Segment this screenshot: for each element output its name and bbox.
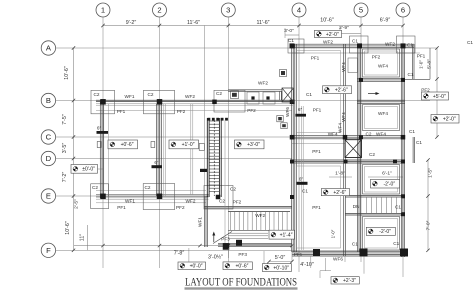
label C2 #3 <box>148 92 154 97</box>
grid line D <box>56 158 292 160</box>
svg-text:11′-6″: 11′-6″ <box>256 20 269 26</box>
grid line E <box>56 195 96 197</box>
bottom vertical x364 <box>363 257 365 274</box>
svg-text:WF2: WF2 <box>255 213 265 218</box>
inner line mid left wing <box>191 104 193 195</box>
svg-text:7′-8″: 7′-8″ <box>174 251 185 257</box>
label C1 #46 <box>302 189 308 194</box>
footing line row C <box>292 143 345 145</box>
svg-text:11′-6″: 11′-6″ <box>187 20 200 26</box>
dim 9'-2 <box>126 20 137 26</box>
column square 1 <box>100 99 106 105</box>
pad C2 row E col1 <box>91 184 109 209</box>
svg-text:1′-0″: 1′-0″ <box>331 229 336 238</box>
svg-text:WF2: WF2 <box>385 42 395 47</box>
bottom dimension line <box>74 244 294 247</box>
wall stair-hall top inner <box>228 211 290 213</box>
dim 11'-6 b <box>256 20 269 26</box>
svg-text:4′-10″: 4′-10″ <box>300 262 314 268</box>
dim 11'-6 a <box>187 20 200 26</box>
inner line left wing east <box>107 104 109 196</box>
leader +-0'-0 <box>98 168 104 170</box>
level +1'-4 stair <box>269 230 295 239</box>
dim 2'-9 top <box>339 25 349 31</box>
svg-text:C2: C2 <box>219 199 225 204</box>
svg-text:PF2: PF2 <box>372 55 381 60</box>
arrow corridor <box>368 92 380 95</box>
svg-text:C2: C2 <box>148 92 154 97</box>
wall annex lower right <box>413 137 414 163</box>
label DN #32 <box>353 204 360 209</box>
dim 5'-0 bottom <box>275 255 286 261</box>
room R3 outline <box>363 165 400 195</box>
column square 28 <box>400 249 408 257</box>
wall stairwell west <box>205 196 208 247</box>
label C2 #36 <box>92 185 98 190</box>
column square 16 <box>290 160 294 164</box>
label C2 #42 <box>219 199 225 204</box>
svg-text:WF4: WF4 <box>328 131 338 136</box>
room R2 outline <box>363 105 400 131</box>
label PF1 #40 <box>117 205 126 210</box>
svg-text:-2′-0″: -2′-0″ <box>379 229 391 235</box>
level +0'-10 bottom <box>262 264 291 272</box>
svg-text:PF2: PF2 <box>421 87 430 92</box>
x-box col4 row B <box>282 88 294 102</box>
svg-text:PF1: PF1 <box>311 56 320 61</box>
label C2 #28 <box>366 131 372 136</box>
level +0'-6 bottom <box>223 262 252 270</box>
pad C2 row B col1 <box>91 90 115 114</box>
grid bubble D <box>41 151 55 165</box>
svg-text:5: 5 <box>359 6 363 15</box>
stair break line <box>213 232 232 244</box>
label PF1 #26 <box>313 108 322 113</box>
svg-text:WF4: WF4 <box>378 64 388 69</box>
column square 3 <box>212 100 217 105</box>
label PF1 #50 <box>294 252 303 257</box>
label C1 #33 <box>395 205 401 210</box>
pad C2 row B col3 <box>214 90 245 112</box>
svg-text:C1: C1 <box>306 92 312 97</box>
svg-text:WF6: WF6 <box>333 257 343 262</box>
dim 2'-5 left <box>74 199 80 209</box>
label PF2 #17 <box>372 55 381 60</box>
dim 3'-0 top <box>284 28 294 34</box>
label PF3 #49 <box>238 252 247 257</box>
svg-text:WF1: WF1 <box>125 199 135 204</box>
svg-text:+1′-4″: +1′-4″ <box>280 232 293 238</box>
column square 29 <box>236 240 242 246</box>
inner rect lower right room <box>297 166 341 248</box>
pad C1 row A col5 <box>350 36 369 53</box>
grid line stairwell <box>203 26 205 197</box>
svg-text:-2′-0″: -2′-0″ <box>383 181 395 187</box>
svg-text:C1: C1 <box>395 205 401 210</box>
svg-text:2: 2 <box>157 6 161 15</box>
dim 7'-0 right <box>426 220 432 230</box>
svg-text:3′-0″: 3′-0″ <box>284 28 294 34</box>
label WF1 rotated <box>198 217 203 227</box>
title LAYOUT OF FOUNDATIONS <box>185 277 297 289</box>
svg-text:10′-6″: 10′-6″ <box>65 221 71 235</box>
dim 6'-9 <box>380 17 391 23</box>
marker 6in col3 <box>296 107 307 117</box>
wall jog row B col3-col4 <box>228 90 282 100</box>
svg-text:C1: C1 <box>407 42 413 47</box>
wall row D right wing <box>290 160 405 163</box>
svg-text:WF2: WF2 <box>185 94 195 99</box>
svg-text:6: 6 <box>401 6 405 15</box>
svg-text:PF3: PF3 <box>221 237 230 242</box>
right dimension line lower <box>426 158 429 252</box>
svg-text:+3′-0″: +3′-0″ <box>247 142 260 148</box>
pad C2 row B col2 <box>144 90 175 114</box>
label PF1 #30 <box>312 149 321 154</box>
dim 7'-5 left <box>62 114 68 125</box>
grid bubble 2 <box>153 3 167 17</box>
c-mark col2 right <box>199 144 204 151</box>
column square 18 <box>100 194 106 200</box>
column square 9 <box>401 43 406 48</box>
wall annex right <box>403 44 430 79</box>
column square 4 <box>251 96 254 99</box>
svg-text:PF1: PF1 <box>117 109 126 114</box>
label WF2 #11 <box>323 39 333 44</box>
svg-text:WF4: WF4 <box>341 62 346 72</box>
svg-text:+2′-3″: +2′-3″ <box>343 278 356 284</box>
column square 7 <box>290 43 295 48</box>
level +2'-0 right <box>431 115 459 124</box>
dim 10'-6 top <box>320 17 334 23</box>
marker 6in row E col4 <box>297 177 308 185</box>
grid line 2 <box>159 17 161 268</box>
svg-text:C1: C1 <box>288 38 294 43</box>
pad C2 row E col2 <box>143 184 175 210</box>
label PF1 #18 <box>417 54 426 59</box>
level +2'-0 top <box>315 30 342 37</box>
svg-text:DN: DN <box>353 204 360 209</box>
column square 10 <box>290 135 295 140</box>
column square 26 <box>313 249 320 256</box>
svg-text:7′-5″: 7′-5″ <box>62 114 68 125</box>
dim 7'-8 bottom <box>174 251 185 257</box>
bottom vertical x310 <box>310 256 312 268</box>
svg-text:+1′-0″: +1′-0″ <box>182 142 195 148</box>
stair shaft east inner line <box>224 120 226 243</box>
grid line B <box>56 100 430 102</box>
svg-text:3: 3 <box>226 6 230 15</box>
svg-text:PF1: PF1 <box>117 205 126 210</box>
svg-text:11″: 11″ <box>80 234 86 241</box>
label C1 #34 <box>352 242 358 247</box>
svg-text:1: 1 <box>101 6 105 15</box>
svg-text:WF4: WF4 <box>376 131 386 136</box>
svg-text:±0′-0″: ±0′-0″ <box>82 167 95 173</box>
svg-text:C2: C2 <box>369 152 375 157</box>
c-mark col1 <box>97 142 101 148</box>
svg-text:C2: C2 <box>145 185 151 190</box>
svg-text:6′-9″: 6′-9″ <box>380 17 391 23</box>
label PF2 #44 <box>233 199 242 204</box>
wall corridor right wing <box>357 78 405 81</box>
svg-text:10′-6″: 10′-6″ <box>320 17 334 23</box>
grid line 6 <box>402 17 404 277</box>
wall row B left wing <box>96 100 294 105</box>
wall room3 bottom rail <box>345 196 403 198</box>
dim 1'-8 <box>329 171 352 178</box>
column square 13 <box>401 135 406 140</box>
marker 6in shaft west <box>200 169 208 172</box>
grid line 4 <box>298 17 300 272</box>
label C1 #12 <box>352 39 358 44</box>
room R1 outline <box>363 49 400 77</box>
dim 10'-6 left a <box>64 66 70 80</box>
svg-text:C2: C2 <box>230 187 236 192</box>
stair main bottom <box>228 212 290 239</box>
column square 27 <box>360 249 368 257</box>
label C2 #38 <box>145 185 151 190</box>
svg-text:C2: C2 <box>366 131 372 136</box>
stair shaft dark dashed row <box>208 118 228 121</box>
column square 19 <box>157 194 163 200</box>
svg-text:WF1: WF1 <box>198 217 203 227</box>
svg-text:9′-2″: 9′-2″ <box>126 20 137 26</box>
leader +0'-6 <box>228 248 230 262</box>
grid line 3 <box>227 17 229 258</box>
label PF1 #5 <box>117 109 126 114</box>
c-mark col2 <box>151 142 155 148</box>
column square 15 <box>393 160 397 164</box>
symbol box wall col4 a <box>277 116 283 122</box>
label WF4 #21 <box>376 131 386 136</box>
svg-text:6″: 6″ <box>298 107 303 112</box>
svg-text:1′-0″: 1′-0″ <box>419 60 424 69</box>
grid line F <box>56 249 403 251</box>
top sub-dimension line col5 <box>340 27 361 37</box>
svg-text:C1: C1 <box>352 39 358 44</box>
svg-text:C1: C1 <box>408 72 414 77</box>
label WF2 #45 <box>255 213 265 218</box>
wall stair right bottom rail <box>345 214 403 216</box>
stair up arrow <box>212 232 215 243</box>
column square 6 <box>290 100 295 105</box>
svg-text:PF1: PF1 <box>417 54 426 59</box>
svg-text:+0′-0″: +0′-0″ <box>190 264 203 270</box>
label WF2 #13 <box>385 42 395 47</box>
dim 5'-8 right <box>427 59 433 69</box>
svg-text:WF6: WF6 <box>285 107 290 117</box>
column square 23 <box>401 78 405 82</box>
svg-text:C1: C1 <box>352 242 358 247</box>
label WF2 #8 <box>258 81 268 86</box>
dim 1'-0 right <box>419 60 424 69</box>
grid line C <box>56 136 292 138</box>
label PF1 #47 <box>312 205 321 210</box>
svg-text:+2′-6″: +2′-6″ <box>333 190 346 196</box>
dim 10'-6 left b <box>65 221 71 235</box>
column square 25 <box>401 212 405 216</box>
symbol box wall col4 b <box>281 123 287 129</box>
label WF4 rotated col5 <box>341 58 357 73</box>
dim 11 left <box>80 234 86 241</box>
svg-text:PF1: PF1 <box>313 108 322 113</box>
footing line row A <box>292 52 420 54</box>
symbol box wall col4 c <box>280 70 287 77</box>
label C2 #43 <box>230 187 236 192</box>
wall row C <box>290 136 405 139</box>
wall col 5 <box>358 44 361 252</box>
footing line row B <box>96 109 292 111</box>
svg-text:PF2: PF2 <box>233 199 242 204</box>
inner rect big room right wing <box>297 51 341 133</box>
svg-text:PF1: PF1 <box>312 149 321 154</box>
svg-text:C1: C1 <box>416 140 422 145</box>
svg-text:C2: C2 <box>94 92 100 97</box>
column square 14 <box>344 160 348 164</box>
column square 12 <box>359 135 363 139</box>
svg-text:5′-8″: 5′-8″ <box>427 59 433 69</box>
svg-text:1′-5″: 1′-5″ <box>428 168 434 178</box>
right dimension line <box>435 46 438 138</box>
column square 30 <box>223 243 230 250</box>
bottom dim 5'-0 line <box>267 260 293 263</box>
label WF1 #37 <box>125 199 135 204</box>
label PF1 #16 <box>311 56 320 61</box>
svg-text:6″: 6″ <box>154 160 159 165</box>
grid bubble 6 <box>396 3 410 17</box>
label PF3 #51 <box>221 237 230 242</box>
svg-text:7′-0″: 7′-0″ <box>426 220 432 230</box>
wall row A <box>292 44 414 47</box>
svg-text:C1: C1 <box>302 189 308 194</box>
svg-text:10′-6″: 10′-6″ <box>64 66 70 80</box>
grid bubble F <box>41 243 55 257</box>
label WF1 #2 <box>125 94 135 99</box>
svg-text:2′-5″: 2′-5″ <box>74 199 80 209</box>
column square 2 <box>157 99 163 105</box>
grid line 5 <box>360 17 362 262</box>
level -2'-0 lower <box>366 227 395 235</box>
svg-text:C1: C1 <box>409 129 415 134</box>
svg-text:B: B <box>46 96 51 105</box>
wall col 5b stairwell <box>344 44 346 256</box>
label PF2 #6 <box>177 109 186 114</box>
svg-text:+0′-6″: +0′-6″ <box>121 142 134 148</box>
level +2'-6 mid <box>323 86 352 94</box>
wall row B right rooms <box>357 100 405 103</box>
leader +0'-0 <box>188 248 190 262</box>
wall row E left wing <box>96 190 209 203</box>
svg-text:LAYOUT OF FOUNDATIONS: LAYOUT OF FOUNDATIONS <box>185 277 297 289</box>
wall col 1 <box>100 100 103 198</box>
level +1'-0 row C <box>169 140 199 149</box>
wall col 2 <box>156 104 165 196</box>
svg-text:PF1: PF1 <box>294 252 303 257</box>
leader +0'-10 <box>263 251 265 264</box>
marker 6in row C col1 <box>97 126 109 134</box>
label C1 #15 <box>467 40 473 45</box>
svg-text:C2: C2 <box>216 91 222 96</box>
svg-text:+2′-0″: +2′-0″ <box>326 32 339 38</box>
svg-text:E: E <box>46 192 51 201</box>
left sub-dimension line <box>87 225 89 250</box>
svg-text:PF2: PF2 <box>176 205 185 210</box>
column square 17 <box>401 160 405 164</box>
level +0'-0 bottom <box>178 262 206 270</box>
svg-text:+0′-6″: +0′-6″ <box>236 264 249 270</box>
column square 8 <box>357 43 362 48</box>
grid bubble B <box>41 93 55 107</box>
svg-text:6″: 6″ <box>97 126 102 131</box>
svg-text:PF1: PF1 <box>312 205 321 210</box>
svg-text:4: 4 <box>297 6 301 15</box>
svg-text:WF4: WF4 <box>338 123 343 133</box>
label C1 #22 <box>306 92 312 97</box>
column square 24 <box>401 194 405 198</box>
bottom vertical x345 <box>344 256 346 262</box>
label PF2 #9 <box>247 108 256 113</box>
pad C2 row E col3 <box>204 186 233 210</box>
label C1 #20 <box>408 72 414 77</box>
marker 6in col2 row D <box>152 160 163 168</box>
grid bubble E <box>41 189 55 203</box>
label C1 #14 <box>407 42 413 47</box>
label C2 #1 <box>94 92 100 97</box>
svg-text:+2′-6″: +2′-6″ <box>335 88 348 94</box>
bottom vertical col4a <box>291 246 293 262</box>
pad C1 row B small b <box>263 92 275 104</box>
wall right wing bottom <box>292 251 406 256</box>
column square 20 <box>216 195 221 200</box>
dim 3'-02 bottom <box>208 254 223 261</box>
level +3'-0 row C <box>235 140 265 149</box>
svg-text:WF2: WF2 <box>258 81 268 86</box>
symbol box row B col3 <box>231 91 239 99</box>
label WF6 #48 <box>333 257 343 262</box>
pad C1 row B small a <box>247 92 259 104</box>
label C1 #31 <box>416 140 422 145</box>
stair shaft center <box>207 118 221 197</box>
level +0'-6 row C a <box>108 140 138 149</box>
dim 7'-2 left <box>62 172 68 183</box>
label C1 #25 <box>409 129 415 134</box>
label C1 #35 <box>393 241 399 246</box>
column square 5 <box>266 96 269 99</box>
svg-text:7′-2″: 7′-2″ <box>62 172 68 183</box>
dim 6'-1 <box>368 171 403 178</box>
grid bubble 3 <box>221 3 235 17</box>
grid bubble 5 <box>354 3 368 17</box>
label C2 #7 <box>216 91 222 96</box>
wall stair bottom <box>218 243 292 246</box>
room R4 outline <box>363 217 400 251</box>
svg-text:PF2: PF2 <box>247 108 256 113</box>
svg-text:5′-0″: 5′-0″ <box>275 255 286 261</box>
left dimension line <box>72 46 75 252</box>
svg-text:C: C <box>46 133 52 142</box>
top dimension line <box>101 24 404 27</box>
svg-text:WF2: WF2 <box>323 39 333 44</box>
svg-text:PF3: PF3 <box>238 252 247 257</box>
dim 1'-5 right <box>428 168 434 178</box>
grid bubble C <box>41 130 55 144</box>
svg-text:3′-5″: 3′-5″ <box>62 143 68 154</box>
svg-text:PF2: PF2 <box>177 109 186 114</box>
label WF4 #19 <box>378 64 388 69</box>
svg-text:WF4: WF4 <box>378 111 388 116</box>
column square 11 <box>343 135 348 140</box>
